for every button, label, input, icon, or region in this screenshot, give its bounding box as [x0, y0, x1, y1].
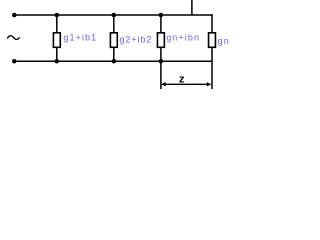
resistor GN [157, 33, 164, 48]
ac source terminal top [12, 13, 16, 18]
resistor G2 [110, 33, 117, 48]
node junction dot branchN bottom [159, 59, 164, 64]
node junction dot branch1 bottom [55, 59, 60, 64]
conductance branch G1 wire lower [56, 47, 58, 61]
conductance branch GN wire upper [160, 15, 162, 33]
resistor Gend [209, 33, 216, 48]
dimension arrowhead left [161, 82, 165, 86]
svg-text:gn+ibn: gn+ibn [166, 33, 200, 43]
dimension arrow line z [162, 83, 210, 85]
svg-text:z: z [179, 74, 185, 86]
wire top rail [14, 14, 213, 16]
node junction dot branchN top [159, 13, 164, 18]
conductance branch G2 wire lower [113, 47, 115, 61]
ac source symbol ~ [7, 36, 19, 40]
dimension arrowhead right [207, 82, 211, 86]
conductance branch G1 wire upper [56, 15, 58, 33]
node junction dot branch1 top [55, 13, 60, 18]
svg-text:gn: gn [218, 36, 230, 46]
resistor G1 [53, 33, 60, 48]
svg-text:g1+ib1: g1+ib1 [63, 33, 97, 43]
dimension extension line left [160, 61, 162, 89]
wire bottom rail [14, 60, 213, 62]
ac source terminal bottom [12, 59, 16, 64]
wire stub at x=192 above top rail [191, 0, 193, 15]
end branch wire lower and dimension extension right [211, 47, 213, 89]
svg-text:g2+ib2: g2+ib2 [120, 35, 153, 45]
node junction dot branch2 top [112, 13, 117, 18]
node junction dot branch2 bottom [112, 59, 117, 64]
conductance branch G2 wire upper [113, 15, 115, 33]
end branch wire upper [211, 14, 213, 33]
conductance branch GN wire lower [160, 47, 162, 61]
